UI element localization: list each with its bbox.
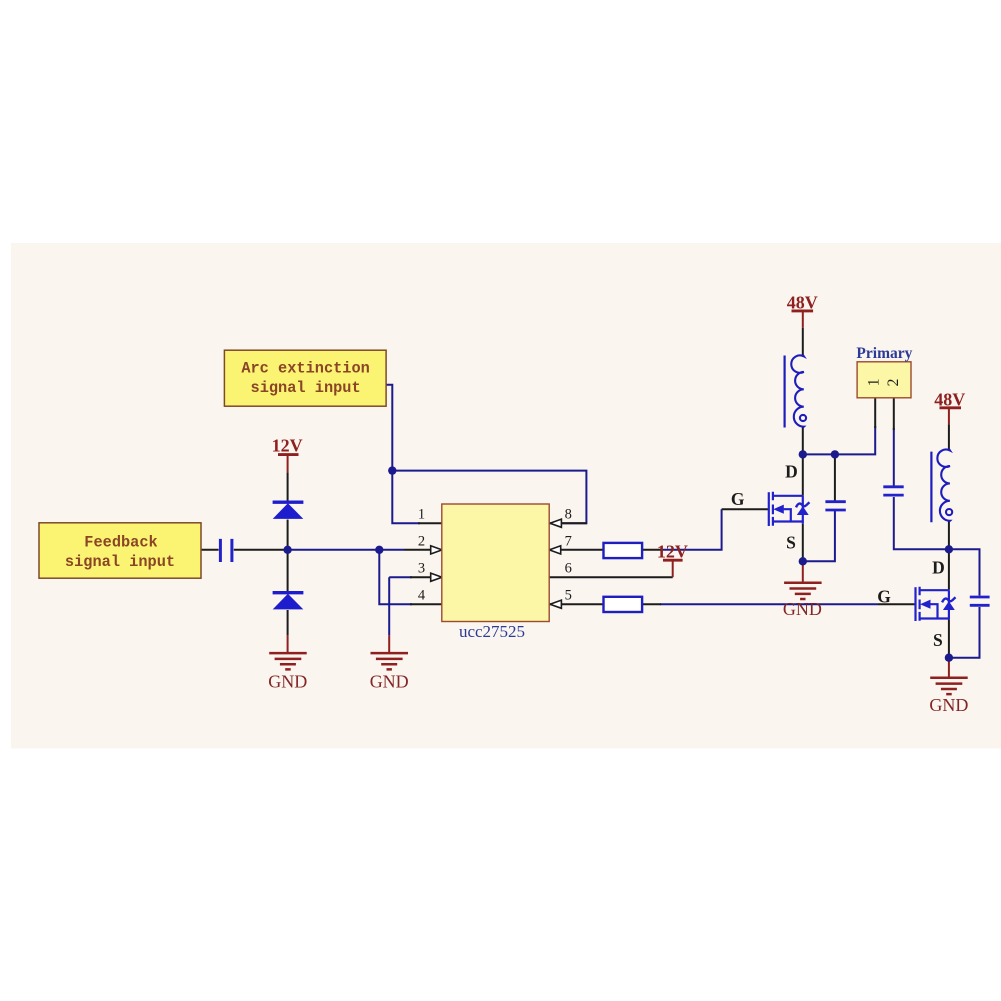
svg-text:12V: 12V (272, 436, 303, 456)
box Arc extinction signal input (224, 350, 386, 406)
ground GND4 (930, 678, 968, 694)
inductor L1 core bar (783, 356, 785, 428)
wire diode chain lower (287, 610, 289, 635)
svg-text:Feedback: Feedback (84, 534, 157, 552)
transistor Q1 mosfet (769, 492, 810, 526)
svg-text:1: 1 (418, 506, 425, 522)
svg-text:signal input: signal input (251, 379, 361, 397)
svg-text:GND: GND (370, 672, 409, 692)
node B junction (375, 546, 383, 554)
svg-text:12V: 12V (657, 541, 688, 561)
wire coil2 to node (948, 522, 950, 550)
pin arrows (431, 519, 562, 608)
wire GND4 riser (948, 658, 950, 677)
wire 48V-2 to coil2 (948, 424, 950, 449)
transistor Q2 mosfet (916, 587, 956, 621)
ground GND1 (269, 653, 307, 669)
wire U1 pin 3 to GND2 (389, 577, 412, 635)
svg-text:2: 2 (885, 379, 902, 387)
wire node B to U1 pin 4 (379, 550, 412, 604)
power bar 12V node A (278, 453, 299, 456)
wire 48V-1 to coil1 (802, 328, 804, 356)
wire GND2 riser (388, 635, 390, 652)
svg-text:signal input: signal input (65, 553, 175, 571)
node A junction (283, 546, 291, 554)
capacitor C3 at M2 (970, 597, 990, 605)
pin numbers U1 (418, 506, 572, 603)
wire node ARC to U1 pin 8 (392, 471, 586, 524)
wire GND3 riser (802, 561, 804, 581)
power bar 12V pin6 (663, 559, 683, 562)
wire diode chain mid (287, 520, 289, 592)
wire R1 to Q1 gate (660, 509, 722, 550)
wire C3 to Q2 source node (949, 607, 980, 658)
inductor L2 core bar (930, 452, 932, 523)
node arc-link junction (388, 466, 396, 474)
wire Q1 source to C2 (803, 511, 835, 561)
blue wires (288, 385, 980, 658)
IC U1 ucc27525 (442, 504, 549, 641)
wire Primary pin 2 to C4 (893, 428, 895, 486)
svg-text:48V: 48V (787, 293, 818, 313)
wire 12V supply drop (287, 455, 289, 473)
black wire stubs (201, 328, 949, 658)
svg-text:Arc extinction: Arc extinction (241, 360, 370, 378)
arrow pin5 (550, 600, 561, 608)
resistor R1 (604, 543, 643, 558)
wire C4 to Q2 drain node (894, 497, 949, 549)
node M1 drain junction (799, 450, 807, 458)
svg-text:ucc27525: ucc27525 (459, 622, 525, 641)
power and ground risers (288, 312, 949, 677)
node M2 source junction (945, 654, 953, 662)
wire node A to node B (288, 549, 404, 551)
arrow pin3 (431, 573, 442, 581)
wire cap2 top (834, 454, 836, 500)
arrow pin7 inner chevron (545, 548, 548, 553)
ground GND3 (784, 583, 822, 599)
svg-text:3: 3 (418, 560, 425, 576)
wire pin1 stub (418, 522, 442, 524)
svg-text:GND: GND (783, 599, 822, 619)
wire cap to node A (234, 549, 288, 551)
wire primary pin2 drop (893, 398, 895, 430)
wire pin6 stub (549, 576, 673, 578)
svg-text:Primary: Primary (856, 345, 912, 362)
arrow pin7 (549, 546, 560, 554)
wire diode chain upper (287, 472, 289, 501)
svg-text:GND: GND (929, 695, 968, 715)
diode D2 (273, 593, 304, 610)
svg-text:48V: 48V (934, 390, 965, 410)
svg-text:G: G (731, 489, 745, 509)
wire M1 source (802, 524, 804, 562)
wire Q2 drain node to C3 (949, 549, 980, 595)
svg-text:2: 2 (418, 533, 425, 549)
arrow pin2 (431, 546, 442, 554)
svg-text:5: 5 (565, 587, 572, 603)
wire pin2 stub (404, 549, 430, 551)
svg-text:S: S (786, 532, 796, 552)
power bar 48V coil1 (792, 309, 814, 312)
wire pin7 stub (549, 549, 661, 551)
wire coil1 to node (802, 427, 804, 454)
box Feedback signal input (39, 523, 201, 578)
node M2 drain junction (945, 545, 953, 553)
svg-text:D: D (785, 462, 798, 482)
node dots (283, 450, 953, 662)
node cap2 junction (831, 450, 839, 458)
power bars (278, 311, 961, 560)
arrow pin8 (550, 519, 561, 527)
box Primary (856, 345, 912, 398)
wire pin5 stub (549, 603, 661, 605)
svg-text:G: G (877, 586, 891, 606)
wire M2 drain (948, 549, 950, 590)
inductor L2 coil (937, 449, 952, 522)
diode D1 (273, 502, 304, 519)
wire M1 gate (722, 508, 770, 510)
capacitor C2 at M1 (825, 502, 845, 510)
capacitor C4 primary (883, 487, 903, 495)
wire Q1 drain node to Primary pin 1 (803, 426, 875, 454)
power bar 48V coil2 (940, 406, 962, 409)
wire pin4 stub (410, 603, 442, 605)
wire pin8 stub (549, 522, 587, 524)
wire primary pin1 drop (874, 398, 876, 428)
inductor L1 coil (791, 355, 806, 428)
wire Arc box to U1 pin 1 (386, 385, 420, 523)
wire 48V supply drop L1 (802, 312, 804, 328)
node M1 source junction (799, 557, 807, 565)
wire M1 drain (802, 454, 804, 495)
wire 12V supply drop pin6 (672, 562, 674, 578)
svg-text:6: 6 (565, 560, 572, 576)
svg-text:8: 8 (565, 506, 572, 522)
resistor R2 (604, 597, 643, 612)
wire GND1 riser (287, 635, 289, 652)
wire C2 to drain node (834, 454, 836, 458)
svg-text:1: 1 (866, 379, 883, 387)
ground GND2 (371, 653, 409, 669)
capacitor C1 input series (220, 539, 232, 562)
svg-text:4: 4 (418, 587, 426, 603)
wire pin3 stub (410, 576, 430, 578)
wire R2 to Q2 gate (660, 603, 878, 605)
wire M2 source (948, 619, 950, 657)
svg-text:D: D (932, 557, 945, 577)
wire M2 gate (878, 603, 916, 605)
wire 48V supply drop L2 (948, 409, 950, 425)
svg-text:GND: GND (268, 672, 307, 692)
svg-text:7: 7 (565, 533, 572, 549)
svg-text:S: S (933, 630, 943, 650)
wire feedback box to cap (201, 549, 219, 551)
